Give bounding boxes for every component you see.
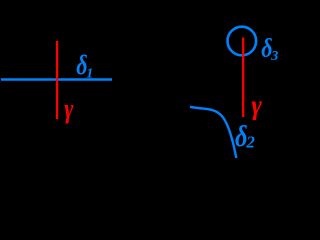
svg-text:γ: γ	[251, 90, 262, 120]
line gamma right (red vertical)	[242, 38, 244, 118]
line delta1 (blue horizontal)	[1, 78, 112, 80]
svg-text:1: 1	[86, 67, 93, 82]
svg-text:γ: γ	[64, 95, 74, 125]
svg-text:2: 2	[245, 132, 255, 151]
svg-text:3: 3	[270, 49, 278, 64]
circle delta3 (blue)	[228, 27, 257, 56]
line gamma left (red vertical)	[56, 41, 58, 119]
curve delta2 (blue arc)	[190, 107, 236, 158]
